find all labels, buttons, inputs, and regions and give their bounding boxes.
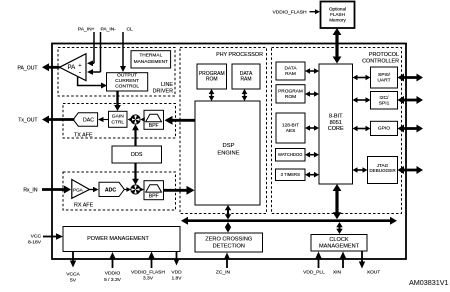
block POWER MANAGEMENT xyxy=(63,227,180,252)
svg-text:8-18V: 8-18V xyxy=(28,240,42,246)
svg-text:RX AFE: RX AFE xyxy=(74,203,94,209)
memory DATA RAM (PHY) xyxy=(232,64,260,89)
thick arrow DSP ENGINE to TX BPF xyxy=(165,116,196,125)
arrow into PA - input xyxy=(87,69,101,75)
svg-text:+: + xyxy=(78,63,82,69)
wire PA output sense to OUTPUT CURRENT CONTROL xyxy=(78,77,107,89)
pin label VDDIO 5 / 3.3V xyxy=(104,271,122,284)
block OUTPUT CURRENT CONTROL xyxy=(107,73,148,91)
pin label VCC 8-18V xyxy=(28,234,42,246)
mixer TX multiplier xyxy=(131,115,140,124)
processor 8-BIT 8051 CORE xyxy=(319,64,353,184)
svg-text:LINE: LINE xyxy=(161,82,173,88)
svg-text:VDD: VDD xyxy=(171,270,182,276)
arrow ADC to RX multiplier xyxy=(124,187,131,192)
svg-text:DETECTION: DETECTION xyxy=(213,243,245,249)
memory PROGRAM ROM (PHY) xyxy=(197,64,227,89)
svg-text:CL: CL xyxy=(127,27,134,33)
svg-text:PROTOCOL: PROTOCOL xyxy=(369,52,399,58)
svg-text:AM03831V1: AM03831V1 xyxy=(409,278,449,287)
arrow DDS up to TX multiplier xyxy=(132,124,139,146)
pin label VCCA 5V xyxy=(66,272,80,284)
svg-text:ZC_IN: ZC_IN xyxy=(216,270,231,276)
svg-text:BPF: BPF xyxy=(149,193,159,199)
svg-text:8-BIT: 8-BIT xyxy=(329,114,343,120)
svg-text:DAC: DAC xyxy=(83,118,94,124)
double arrow core to SPI0/UART xyxy=(353,75,371,81)
svg-text:DRIVER: DRIVER xyxy=(153,89,173,95)
phy processor dashed boundary xyxy=(180,48,267,214)
external double arrow SPI0/UART port xyxy=(398,74,424,82)
wire ZC_IN into zero crossing detection xyxy=(224,253,230,269)
pin label VDDIO_FLASH 3.3V xyxy=(131,270,165,282)
block THERMAL MANAGEMENT xyxy=(131,51,171,68)
svg-text:CTRL: CTRL xyxy=(111,120,124,126)
pin label VDD 1.8V xyxy=(171,270,182,282)
svg-text:BPF: BPF xyxy=(149,123,159,129)
double arrow bus to zero crossing detection xyxy=(225,222,231,233)
external double arrow JTAG port xyxy=(398,166,424,174)
arrow GAIN CTRL to DAC xyxy=(98,117,109,122)
svg-text:I2C/: I2C/ xyxy=(380,95,390,101)
svg-text:WATCHDOG: WATCHDOG xyxy=(278,152,302,157)
svg-text:1.8V: 1.8V xyxy=(171,276,182,282)
svg-text:TX AFE: TX AFE xyxy=(74,133,93,139)
svg-text:CLOCK: CLOCK xyxy=(329,237,349,243)
svg-text:3 TIMERS: 3 TIMERS xyxy=(281,172,300,177)
peripheral JTAG DEBUGGER xyxy=(368,157,398,184)
main chip outline box xyxy=(52,44,406,260)
wire VDDIO input xyxy=(109,252,115,268)
crypto 128-BIT AES xyxy=(276,113,305,143)
external double arrow I2C/SPI1 port xyxy=(398,96,424,104)
label LINE DRIVER xyxy=(153,82,174,95)
wire XOUT output xyxy=(359,251,365,269)
svg-text:DATA: DATA xyxy=(284,66,297,72)
label PROTOCOL CONTROLLER xyxy=(362,52,399,65)
thick arrow RX BPF to DSP ENGINE xyxy=(164,186,195,195)
wire VDD output xyxy=(173,252,179,266)
svg-text:CURRENT: CURRENT xyxy=(115,78,139,84)
svg-text:CORE: CORE xyxy=(328,126,344,132)
svg-text:VDDIO_FLASH: VDDIO_FLASH xyxy=(273,10,307,16)
svg-text:AES: AES xyxy=(286,128,296,134)
double arrow DATA RAM to DSP xyxy=(242,89,248,101)
op-amp PA (power amplifier triangle) xyxy=(60,54,87,81)
double arrow DATA RAM to core xyxy=(305,68,319,74)
svg-text:FLASH: FLASH xyxy=(330,12,345,17)
svg-text:ADC: ADC xyxy=(105,187,116,193)
double arrow core to JTAG DEBUGGER xyxy=(353,167,368,173)
thick wire Tx_OUT xyxy=(42,116,75,124)
svg-text:RAM: RAM xyxy=(285,71,296,77)
memory PROGRAM ROM (8051) xyxy=(276,85,305,103)
block 3 TIMERS xyxy=(276,169,306,181)
svg-text:PROGRAM: PROGRAM xyxy=(278,88,303,94)
double arrow PROGRAM ROM to DSP xyxy=(209,89,215,101)
peripheral GPIO xyxy=(371,121,398,135)
double arrow DSP to bus xyxy=(225,205,231,220)
svg-text:DEBUGGER: DEBUGGER xyxy=(369,168,396,173)
svg-text:ROM: ROM xyxy=(206,77,218,83)
svg-text:VDDIO: VDDIO xyxy=(105,271,121,277)
wire PA_IN+ into PA + input xyxy=(93,32,95,63)
svg-text:CONTROL: CONTROL xyxy=(115,84,139,90)
thick wire Rx_IN into PGA xyxy=(42,186,71,194)
memory Optional FLASH Memory xyxy=(321,2,355,29)
svg-text:DDS: DDS xyxy=(131,152,143,158)
svg-text:VCCA: VCCA xyxy=(66,272,80,278)
svg-text:Tx_OUT: Tx_OUT xyxy=(18,118,37,124)
svg-text:GPIO: GPIO xyxy=(378,126,390,132)
converter DAC (flag pentagon) xyxy=(73,113,97,126)
svg-text:XOUT: XOUT xyxy=(367,270,381,276)
svg-text:128-BIT: 128-BIT xyxy=(282,123,299,129)
line driver dashed boundary xyxy=(58,48,175,97)
svg-text:Memory: Memory xyxy=(329,17,346,22)
arrow into PA + input xyxy=(87,60,94,66)
svg-text:PA_IN-: PA_IN- xyxy=(101,27,117,33)
op-amp PGA (triangle) xyxy=(72,180,90,199)
svg-text:ROM: ROM xyxy=(285,94,296,100)
double arrow core to I2C/SPI1 xyxy=(353,97,371,103)
memory DATA RAM (8051) xyxy=(276,62,305,80)
thick double arrow flash to 8051 core xyxy=(333,28,342,64)
svg-text:PA: PA xyxy=(68,64,77,71)
wire VDD_PLL input xyxy=(315,252,321,269)
wire VCC into POWER MANAGEMENT xyxy=(43,233,63,239)
svg-text:SPI1: SPI1 xyxy=(379,100,390,106)
peripheral SPI0/UART xyxy=(371,67,398,88)
svg-text:PGA: PGA xyxy=(73,187,84,192)
oscillator DDS xyxy=(112,146,162,163)
svg-text:MANAGEMENT: MANAGEMENT xyxy=(319,243,360,249)
svg-text:Rx_IN: Rx_IN xyxy=(23,188,37,194)
svg-text:8051: 8051 xyxy=(330,120,342,126)
svg-text:VDD_PLL: VDD_PLL xyxy=(303,270,325,276)
wire VCCA output xyxy=(70,252,76,268)
double arrow 3 TIMERS to core xyxy=(305,172,319,178)
svg-text:POWER MANAGEMENT: POWER MANAGEMENT xyxy=(87,236,149,242)
tx afe dashed boundary xyxy=(63,104,176,139)
svg-text:ZERO CROSSING: ZERO CROSSING xyxy=(205,237,252,243)
block CLOCK MANAGEMENT xyxy=(311,235,367,252)
svg-text:XIN: XIN xyxy=(333,270,342,276)
svg-text:PA_OUT: PA_OUT xyxy=(17,65,37,71)
mixer RX multiplier xyxy=(131,185,140,194)
svg-text:ENGINE: ENGINE xyxy=(217,151,239,157)
svg-text:GAIN: GAIN xyxy=(112,113,124,119)
thick arrow OCC down to GAIN CTRL xyxy=(114,91,121,111)
wire VDDIO_FLASH input xyxy=(148,252,154,269)
svg-text:CONTROLLER: CONTROLLER xyxy=(362,59,399,65)
double arrow PROGRAM ROM to core xyxy=(305,91,319,97)
thick wire PA_OUT xyxy=(42,63,60,71)
converter ADC (pentagon) xyxy=(99,182,124,196)
svg-text:Optional: Optional xyxy=(329,7,346,12)
svg-text:3.3V: 3.3V xyxy=(143,276,154,282)
filter BPF (RX band-pass) xyxy=(144,181,164,200)
peripheral I2C/SPI1 xyxy=(371,92,398,110)
double arrow core to GPIO xyxy=(353,126,371,132)
internal bus (horizontal double arrow) xyxy=(181,217,397,225)
block ZERO CROSSING DETECTION xyxy=(195,233,263,252)
processor DSP ENGINE xyxy=(195,101,260,205)
filter BPF (TX band-pass) xyxy=(144,110,164,129)
svg-text:UART: UART xyxy=(377,78,390,84)
arrow RX multiplier to RX BPF xyxy=(140,187,145,192)
arrow VDDIO_FLASH into flash xyxy=(310,9,321,14)
external double arrow GPIO port xyxy=(398,125,424,133)
double arrow bus to clock management xyxy=(336,222,342,234)
wire PA_IN- into PA - input xyxy=(99,32,101,72)
rx afe dashed boundary xyxy=(63,172,176,210)
arrow TX BPF to multiplier xyxy=(140,117,145,122)
arrow DDS down to RX multiplier xyxy=(132,163,139,185)
svg-text:MANAGEMENT: MANAGEMENT xyxy=(134,59,168,65)
svg-text:VCC: VCC xyxy=(31,234,42,240)
double arrow WATCHDOG to core xyxy=(305,152,319,158)
wire CL into OUTPUT CURRENT CONTROL xyxy=(120,32,126,72)
svg-text:THERMAL: THERMAL xyxy=(139,52,162,58)
thick double arrow 8051 core to bus xyxy=(333,184,342,219)
protocol controller dashed boundary xyxy=(272,48,402,214)
svg-text:RAM: RAM xyxy=(240,77,251,83)
svg-text:SPI0/: SPI0/ xyxy=(378,72,391,78)
svg-text:5V: 5V xyxy=(70,278,77,284)
svg-text:VDDIO_FLASH: VDDIO_FLASH xyxy=(131,270,165,276)
block GAIN CTRL xyxy=(109,111,128,127)
block WATCHDOG xyxy=(276,149,306,162)
arrow TX multiplier to GAIN CTRL xyxy=(128,117,133,122)
svg-text:OUTPUT: OUTPUT xyxy=(117,73,137,79)
double arrow AES to core xyxy=(305,125,319,131)
wire XIN input xyxy=(340,252,346,269)
svg-text:DSP: DSP xyxy=(223,143,235,149)
arrow PGA to ADC xyxy=(90,187,99,193)
svg-text:PHY PROCESSOR: PHY PROCESSOR xyxy=(216,52,263,58)
svg-text:5 / 3.3V: 5 / 3.3V xyxy=(104,277,122,283)
svg-text:PA_IN+: PA_IN+ xyxy=(78,27,95,33)
